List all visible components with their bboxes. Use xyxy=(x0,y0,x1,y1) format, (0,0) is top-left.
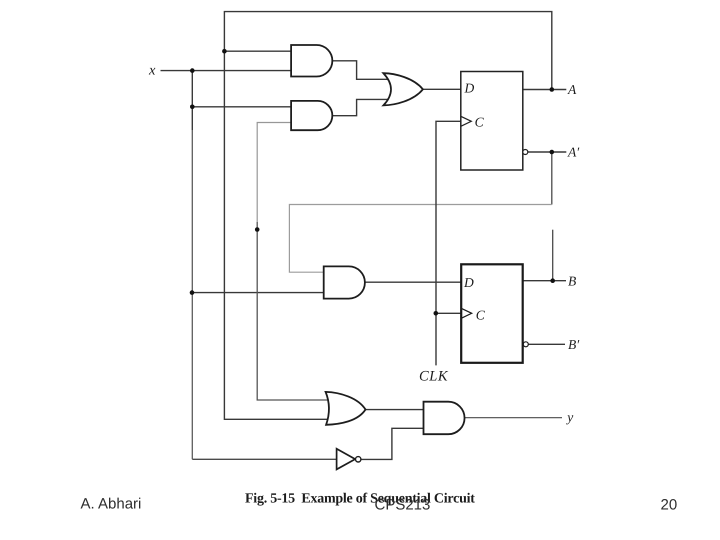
svg-text:Fig. 5-15 Example of Sequenti: Fig. 5-15 Example of Sequential Circuit xyxy=(245,491,475,506)
svg-text:A′: A′ xyxy=(567,145,580,160)
junction on x line at AND3 branch xyxy=(190,290,195,295)
wire AND3 output to U2 D xyxy=(365,281,461,283)
wire A feedback loop (A output up, across top, down left, into OR2 lower input) xyxy=(224,12,551,420)
svg-text:A: A xyxy=(567,82,577,97)
flip-flop U1 box xyxy=(461,72,523,171)
flip-flop U1 complement bubble xyxy=(523,150,528,155)
junction at node A' xyxy=(550,150,555,155)
wire A' output xyxy=(528,151,567,153)
wire OR2 output to AND4 upper input xyxy=(366,409,424,411)
wire branch to AND2 upper input xyxy=(192,106,291,108)
and-gate G7 (output y) xyxy=(424,402,465,435)
svg-text:CLK: CLK xyxy=(419,368,449,384)
svg-text:B: B xyxy=(568,274,576,289)
wire y output xyxy=(465,417,562,419)
wire inverter output jog to AND4 lower input xyxy=(361,428,424,459)
svg-text:B′: B′ xyxy=(568,337,580,352)
wire A output xyxy=(523,89,567,91)
wire AND2 output jog to OR1 xyxy=(332,99,394,115)
wire trunk down to OR2 upper input xyxy=(257,222,334,400)
or-gate G3 (feeds U1 D) xyxy=(383,73,423,105)
svg-text:CPS213: CPS213 xyxy=(375,497,431,514)
wire x input horizontal xyxy=(161,70,292,72)
or-gate G5 (bottom) xyxy=(326,392,366,425)
wire A' feedback vertical xyxy=(551,152,553,205)
wire inverter input feed xyxy=(192,458,337,460)
svg-text:C: C xyxy=(476,308,486,323)
wire x vertical trunk lower segment xyxy=(191,130,193,459)
wire A' feedback across and into AND3 upper input xyxy=(289,205,551,273)
svg-text:D: D xyxy=(463,275,474,290)
svg-text:C: C xyxy=(475,115,485,130)
wire CLK branch to U2 C xyxy=(436,312,461,314)
junction at node B xyxy=(550,278,555,283)
and-gate G4 (feeds U2 D) xyxy=(324,266,365,298)
wire AND1 output jog to OR1 xyxy=(332,61,394,80)
wire branch to AND3 lower input xyxy=(192,292,325,294)
flip-flop U1 clock triangle xyxy=(461,116,472,126)
wire B' output xyxy=(528,343,565,345)
inverter G6 triangle xyxy=(337,449,356,470)
junction on CLK line xyxy=(434,311,439,316)
junction node on AND2-input trunk xyxy=(255,227,260,232)
inverter G6 bubble xyxy=(356,457,361,462)
flip-flop U2 clock triangle xyxy=(461,308,472,318)
svg-text:x: x xyxy=(148,63,156,79)
wire B feedback stub upward xyxy=(552,230,554,281)
flip-flop U2 box xyxy=(461,264,523,363)
and-gate G2 xyxy=(291,101,332,130)
svg-text:A. Abhari: A. Abhari xyxy=(81,496,142,513)
wire x vertical trunk upper segment xyxy=(191,71,193,130)
wire B output xyxy=(523,280,566,282)
junction on x line at AND1 input xyxy=(190,68,195,73)
svg-text:y: y xyxy=(565,410,573,425)
wire CLK vertical xyxy=(436,121,461,365)
flip-flop U2 complement bubble xyxy=(523,342,528,347)
and-gate G1 (top) xyxy=(291,45,332,77)
svg-text:D: D xyxy=(464,81,475,96)
wire AND2 lower input stub xyxy=(257,123,292,223)
junction at node A xyxy=(550,87,555,92)
junction on A feedback at AND1 branch xyxy=(222,49,227,54)
wire OR1 output to U1 D xyxy=(423,88,461,90)
junction on x line at AND2 branch xyxy=(190,105,195,110)
wire branch to AND1 upper input xyxy=(224,50,291,52)
svg-text:20: 20 xyxy=(661,497,678,514)
